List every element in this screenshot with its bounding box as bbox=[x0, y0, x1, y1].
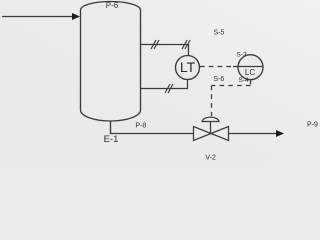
signal wire LC to valve horizontal (dashed) bbox=[212, 85, 251, 87]
svg-text:S-3: S-3 bbox=[236, 52, 247, 59]
svg-text:P-9: P-9 bbox=[307, 122, 318, 129]
outlet pipe wire with arrow P-9 bbox=[229, 130, 285, 137]
level transmitter LT bbox=[176, 56, 200, 80]
svg-text:S-5: S-5 bbox=[214, 30, 225, 37]
outlet pipe wire from vessel bottom to valve bbox=[111, 121, 194, 134]
control valve V-2 body bbox=[194, 127, 229, 141]
signal wire down to valve actuator (dashed) bbox=[211, 86, 213, 117]
svg-text:P-6: P-6 bbox=[106, 1, 119, 10]
svg-text:E-1: E-1 bbox=[104, 134, 119, 145]
svg-text:LT: LT bbox=[180, 59, 196, 75]
lower tap wire (vessel to LT) bbox=[141, 78, 188, 89]
upper tap wire (vessel to LT) bbox=[141, 45, 189, 57]
pipe break mark on lower tap bbox=[165, 84, 173, 93]
svg-text:P-8: P-8 bbox=[135, 123, 146, 130]
signal wire LT to LC (dashed) bbox=[200, 66, 235, 68]
vessel E-1 bbox=[81, 2, 141, 122]
svg-text:S-4: S-4 bbox=[238, 77, 249, 84]
svg-text:V-2: V-2 bbox=[205, 155, 216, 162]
valve actuator (diaphragm) bbox=[202, 117, 219, 133]
pipe break marks on upper tap bbox=[151, 40, 190, 49]
signal wire LC down stub (dashed) bbox=[250, 80, 252, 86]
svg-text:LC: LC bbox=[245, 68, 255, 77]
inlet pipe wire with arrow into vessel bbox=[2, 13, 80, 20]
svg-text:S-6: S-6 bbox=[213, 76, 224, 83]
level controller LC bbox=[233, 55, 264, 80]
